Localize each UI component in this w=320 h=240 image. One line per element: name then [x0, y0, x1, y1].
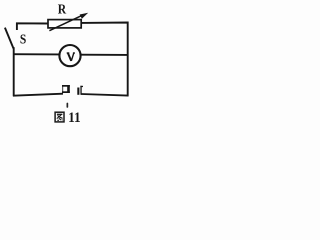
svg-text:11: 11: [68, 110, 81, 126]
voltmeter V circle: [59, 45, 80, 66]
wire: bottom-left segment to battery: [13, 94, 63, 96]
battery cell 1: long thin plate (faint left side): [62, 86, 63, 94]
wire: voltmeter branch right: [81, 54, 128, 56]
switch S blade (open, leaning left): [5, 28, 14, 49]
wire: voltmeter branch left: [13, 53, 59, 55]
voltmeter V letter: [67, 53, 75, 61]
rheostat arrow shaft: [49, 15, 82, 31]
battery cell 1: ink bridge bottom: [62, 91, 70, 93]
svg-text:S: S: [20, 33, 27, 48]
wire: bottom-right segment from battery to bottom-right corner: [81, 94, 128, 96]
battery cell 2: long thin plate: [80, 86, 81, 95]
battery cell 2: top serif: [80, 86, 83, 87]
svg-text:R: R: [58, 3, 67, 18]
caption: character 图 drawn as strokes: [55, 112, 64, 122]
rheostat arrow head: [80, 13, 89, 19]
stray ink mark above caption: [67, 103, 69, 108]
wire: left vertical (pivot down to bottom-left corner): [13, 47, 15, 96]
resistor R rheostat box: [48, 20, 81, 28]
wire: top-left corner and stub down to switch contact: [17, 23, 48, 30]
battery cell 2: short thick plate: [77, 88, 79, 95]
wire: rheostat to top-right corner then right vertical down: [82, 23, 128, 97]
battery cell 1: short thick plate: [67, 85, 70, 93]
battery cell 1: ink bridge top: [62, 85, 70, 87]
